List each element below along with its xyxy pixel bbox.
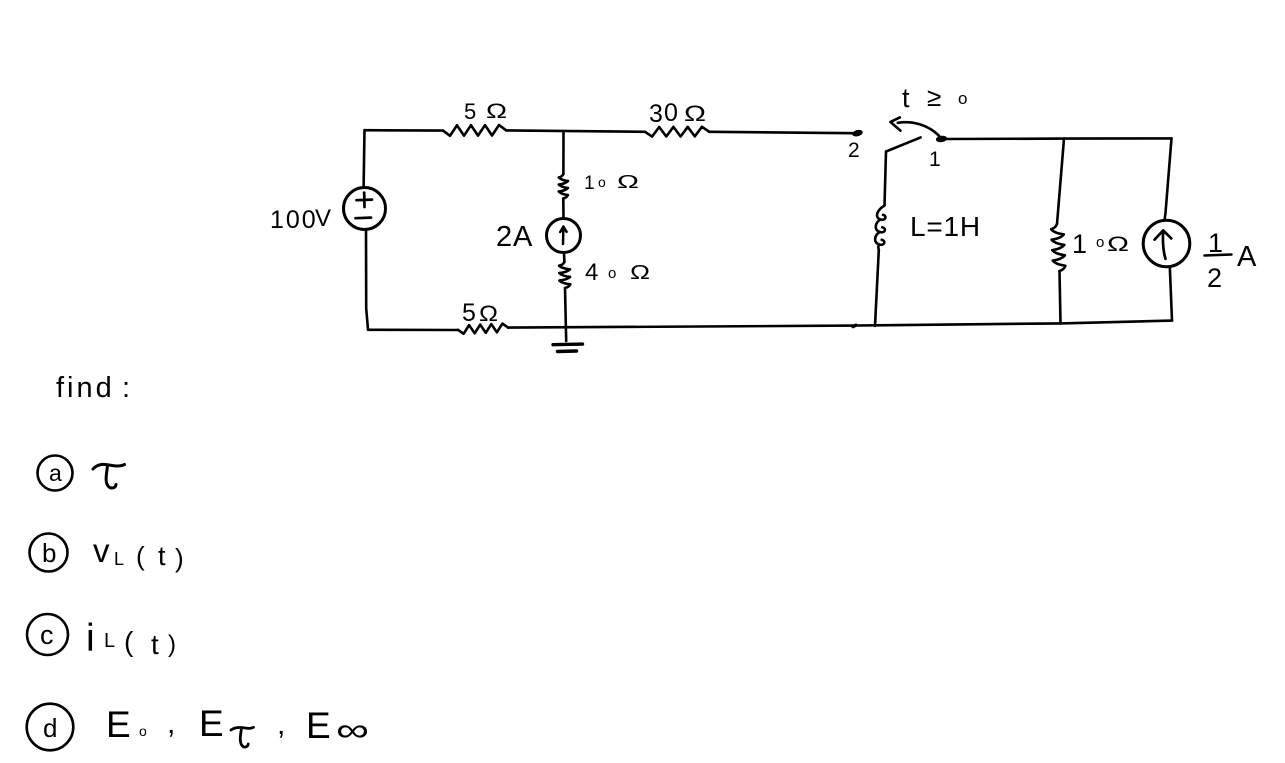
wire bottom-left segment: [368, 328, 458, 331]
svg-text:o: o: [608, 265, 616, 282]
label 5ohm bottom: [462, 299, 498, 327]
label L=1H: [910, 211, 981, 242]
wire bottom right segment: [856, 321, 1172, 326]
switch lever: [886, 137, 920, 151]
svg-text:Ω: Ω: [684, 101, 706, 126]
resistor 5ohm bottom: [458, 324, 508, 334]
label t>=0: [902, 82, 967, 113]
wire right edge upper: [1165, 138, 1172, 220]
svg-text:4: 4: [585, 259, 598, 286]
svg-text:d: d: [43, 713, 57, 743]
junction tick bottom: [853, 325, 856, 326]
resistor 30ohm top: [645, 127, 709, 137]
resistor 10ohm right: [1051, 224, 1065, 271]
label Einf: [306, 705, 369, 748]
inductor L1: [875, 206, 885, 251]
svg-text:2: 2: [496, 221, 512, 253]
svg-text:o: o: [958, 89, 967, 108]
svg-text:a: a: [49, 460, 62, 486]
wire bottom middle segment: [508, 326, 854, 328]
wire top middle segment: [506, 130, 645, 131]
label half A: [1205, 228, 1258, 293]
label 40ohm: [585, 259, 650, 286]
svg-text:v: v: [93, 532, 110, 569]
wire middle branch top: [562, 131, 565, 174]
label E0: [106, 704, 147, 745]
label 2: [848, 139, 860, 162]
wire left top vertical: [362, 130, 365, 187]
label find: [56, 372, 130, 404]
svg-text:L: L: [104, 630, 115, 652]
label 1: [929, 148, 941, 171]
svg-text:V: V: [315, 205, 331, 232]
svg-text:b: b: [42, 538, 56, 568]
svg-text:2: 2: [1207, 263, 1222, 293]
svg-text:3: 3: [649, 100, 663, 128]
item b circle: [30, 534, 68, 572]
svg-text:E: E: [106, 704, 131, 745]
svg-text:Ω: Ω: [630, 262, 650, 284]
item c letter: [40, 620, 54, 650]
svg-text:≥: ≥: [927, 82, 941, 112]
voltage source V1 100V: [344, 188, 386, 230]
tau subscript: [231, 727, 254, 747]
wire middle above source: [562, 199, 565, 219]
svg-text:o: o: [598, 174, 606, 190]
svg-text:): ): [168, 631, 176, 658]
svg-text:L=1H: L=1H: [910, 211, 981, 242]
svg-text::: :: [122, 372, 130, 404]
label 10ohm middle: [584, 172, 639, 194]
current source I2 half-amp: [1143, 220, 1190, 267]
ground: [553, 344, 583, 351]
resistor 40ohm middle: [559, 262, 570, 288]
svg-text:∞: ∞: [336, 711, 369, 748]
switch contact dot 2: [851, 129, 863, 138]
svg-text:,: ,: [277, 708, 285, 741]
label vL(t): [93, 532, 184, 573]
wire middle below source: [563, 253, 566, 262]
label Etau: [199, 703, 224, 744]
item d letter: [43, 713, 57, 743]
wire right branch lower: [1060, 271, 1061, 323]
label 30ohm: [649, 99, 706, 128]
svg-text:o: o: [139, 723, 147, 739]
label tau a: [93, 464, 125, 488]
svg-text:0: 0: [664, 99, 678, 127]
item a circle: [38, 456, 73, 491]
item b letter: [42, 538, 56, 568]
svg-text:Ω: Ω: [479, 301, 498, 326]
switch arc arrow: [890, 117, 939, 135]
wire top-left segment: [365, 129, 444, 132]
wire to switch contact 2: [709, 132, 853, 133]
svg-text:find: find: [56, 372, 115, 404]
svg-text:): ): [175, 543, 184, 573]
svg-text:5: 5: [464, 99, 476, 124]
svg-text:A: A: [513, 221, 533, 253]
svg-text:(: (: [124, 626, 134, 657]
svg-text:Ω: Ω: [1107, 233, 1129, 256]
switch contact dot 1: [936, 135, 948, 143]
current source I1 2A: [547, 219, 581, 253]
svg-text:Ω: Ω: [486, 100, 507, 123]
svg-text:E: E: [199, 703, 224, 744]
label 5ohm top: [464, 99, 507, 124]
svg-text:o: o: [1096, 234, 1104, 251]
wire right edge lower: [1170, 267, 1172, 321]
svg-text:E: E: [306, 705, 331, 746]
svg-text:1: 1: [1208, 228, 1223, 258]
svg-text:t: t: [902, 83, 910, 113]
svg-text:(: (: [136, 541, 145, 571]
svg-text:L: L: [114, 549, 124, 569]
svg-text:A: A: [1237, 241, 1257, 273]
svg-text:t: t: [151, 629, 159, 660]
wire switch to right top: [947, 137, 1172, 140]
svg-text:1: 1: [584, 173, 595, 194]
item c circle: [27, 614, 68, 655]
item a letter: [49, 460, 62, 486]
svg-text:i: i: [86, 617, 95, 660]
label iL(t): [86, 617, 176, 660]
svg-text:5: 5: [462, 299, 476, 327]
svg-text:2: 2: [848, 139, 860, 162]
svg-text:,: ,: [167, 707, 175, 740]
resistor 5ohm top: [443, 125, 506, 136]
resistor 10ohm middle: [559, 174, 568, 199]
svg-text:Ω: Ω: [617, 172, 639, 192]
svg-text:100: 100: [270, 206, 318, 234]
svg-text:1: 1: [929, 148, 941, 171]
wire inductor to bottom: [875, 250, 879, 326]
svg-text:t: t: [158, 541, 166, 571]
label 10ohm right: [1072, 229, 1129, 259]
label 2A: [496, 221, 533, 253]
svg-text:1: 1: [1072, 229, 1087, 259]
item d circle: [27, 704, 74, 751]
wire switch pole down: [885, 151, 887, 205]
wire left bottom vertical: [366, 230, 368, 330]
comma 1: [167, 707, 175, 740]
comma 2: [277, 708, 285, 741]
wire middle to ground: [565, 288, 566, 341]
wire right branch upper: [1057, 139, 1064, 224]
svg-text:c: c: [40, 620, 54, 650]
label 100V: [270, 205, 331, 234]
